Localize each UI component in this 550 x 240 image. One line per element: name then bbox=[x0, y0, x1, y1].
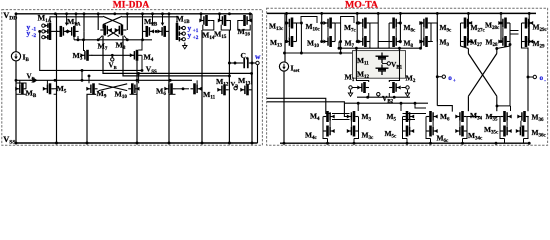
cross-coupling X top bbox=[103, 16, 122, 24]
input terminals of M1A bbox=[42, 24, 48, 39]
wire M13 gate loop bbox=[297, 17, 318, 24]
transistor M10c bbox=[323, 18, 335, 29]
wire M28 drain down bbox=[497, 42, 510, 49]
wire M29 drain down bbox=[522, 42, 529, 78]
transistor M2 bbox=[389, 82, 401, 93]
wire M9c gate link bbox=[423, 27, 425, 37]
wire M1B drain up bbox=[122, 17, 177, 23]
terminal VB2 bbox=[377, 93, 380, 96]
inner box M11 M12 bbox=[353, 51, 406, 79]
wire right col down bbox=[251, 14, 253, 143]
wire M28c gate link bbox=[502, 27, 504, 37]
transistor M13 bbox=[285, 36, 297, 47]
wire M2A src right bbox=[83, 14, 85, 32]
wire M8 src up bbox=[126, 14, 128, 30]
wire MB drain bbox=[16, 83, 26, 94]
wire M5 leads bbox=[54, 83, 57, 98]
wire M9c drain chain bbox=[430, 23, 432, 42]
transistor M28c bbox=[498, 18, 510, 29]
wire M28c drain chain bbox=[509, 23, 511, 42]
transistor M5c bbox=[403, 126, 414, 137]
wire M29c drain chain bbox=[521, 23, 523, 42]
svg-text:+2: +2 bbox=[193, 35, 199, 41]
MO-TA block border bbox=[267, 8, 548, 145]
wire gate bus VB row bbox=[16, 79, 192, 81]
transistor M34c bbox=[455, 126, 466, 137]
transistor M13 bbox=[240, 84, 251, 95]
wire source bus y40 bbox=[74, 39, 152, 41]
wire VB1 stub bbox=[382, 63, 387, 65]
wire X left top bbox=[467, 49, 469, 54]
terminal VB of M3 M4 bbox=[111, 58, 114, 61]
transistor M28 bbox=[498, 36, 510, 47]
wire MB gate up bbox=[19, 80, 21, 84]
wire M15 loop bbox=[221, 21, 230, 31]
svg-text:-1: -1 bbox=[32, 27, 37, 33]
wire o- stub bbox=[528, 76, 533, 78]
wire M35 gate branch bbox=[497, 106, 511, 111]
wire long bus A bbox=[103, 36, 252, 73]
wire IB drop bbox=[15, 14, 17, 52]
wire M27c gate link bbox=[467, 27, 469, 37]
svg-text:y: y bbox=[27, 28, 31, 37]
transistor M4c bbox=[323, 126, 334, 137]
wire M2A gate join bbox=[66, 30, 69, 33]
transistor M9 bbox=[419, 36, 431, 47]
transistor M3c bbox=[347, 126, 358, 137]
vss arrow below M1 input bbox=[348, 90, 352, 96]
transistor M11 bbox=[190, 83, 201, 94]
transistor M12 bbox=[217, 84, 228, 95]
VB arrows bbox=[30, 78, 37, 82]
transistor M16 bbox=[241, 15, 252, 26]
wire M1 drain up bbox=[356, 48, 368, 82]
wires M5-M6 links bbox=[403, 114, 427, 120]
output terminal o- bbox=[533, 75, 536, 78]
vss arrow below M2 input bbox=[405, 90, 409, 96]
wire M3 gate bus bbox=[92, 54, 134, 56]
wire M10 gate loop bbox=[335, 17, 354, 42]
wire M7 drain down bbox=[98, 36, 102, 40]
wire o+ stub bbox=[437, 76, 442, 78]
svg-text:o: o bbox=[448, 74, 452, 82]
wire M15 col down bbox=[228, 30, 230, 143]
wire M13c drain chain bbox=[296, 23, 298, 42]
wire M7 src up bbox=[97, 14, 99, 30]
transistor M36 bbox=[517, 111, 528, 122]
transistor M15 bbox=[218, 15, 229, 26]
transistor M9c bbox=[419, 18, 431, 29]
transistor M2A left bbox=[57, 26, 68, 37]
cross-coupling X of M7 M8 gates bbox=[108, 30, 119, 37]
wire M9 drain down bbox=[437, 13, 452, 111]
svg-text:+1: +1 bbox=[193, 28, 199, 34]
transistor M12 as MOS-cap bbox=[376, 65, 389, 76]
terminal VB1 bbox=[387, 62, 390, 65]
svg-text:w: w bbox=[255, 52, 261, 61]
wire M11 gate up bbox=[196, 80, 198, 84]
wire M27c source feed bbox=[467, 13, 469, 41]
wire M13c gate link bbox=[288, 27, 290, 37]
wire M28 drain straight bbox=[509, 44, 511, 106]
wire M8c source feed bbox=[399, 13, 401, 41]
transistor M1B multigate bars bbox=[177, 23, 179, 42]
transistor M3 bbox=[347, 111, 358, 122]
transistor M35c bbox=[500, 126, 511, 137]
wire IB down bbox=[15, 61, 17, 143]
current source IB bbox=[11, 52, 20, 61]
wire M2B col down bbox=[168, 31, 170, 143]
junction dots on VDD rail bbox=[15, 12, 18, 15]
wire M12 drain up bbox=[228, 76, 231, 90]
capacitor Cc plates bbox=[244, 58, 248, 68]
wire M2B drain drop right bbox=[162, 14, 164, 25]
wire Iset to bias box bbox=[285, 52, 353, 54]
wire M16 src drop bbox=[249, 14, 251, 21]
junction dots on VSS rail right bbox=[283, 142, 286, 145]
wires M34-M35 gate link bbox=[467, 116, 500, 118]
wire M6 drain bbox=[176, 88, 184, 90]
transistor M5 bbox=[43, 83, 54, 94]
transistor M2B right bbox=[158, 26, 169, 37]
wire M10 drain up bbox=[138, 73, 140, 83]
transistor M8c bbox=[389, 18, 401, 29]
wire input route 2 bbox=[267, 102, 348, 117]
wire drain bus bbox=[40, 31, 142, 70]
wire M15 src drop bbox=[219, 14, 221, 21]
transistor M8 bbox=[389, 36, 401, 47]
wire M8c gate link bbox=[395, 27, 397, 37]
junction dots on VDD rail right bbox=[285, 12, 288, 15]
wire M4 drain up bbox=[138, 40, 142, 50]
transistor M3 bbox=[80, 50, 92, 61]
transistor M4 bbox=[130, 50, 142, 61]
wire M7 drain down bbox=[369, 42, 371, 49]
wire M12 src bbox=[229, 95, 252, 143]
wire M16 loop bbox=[238, 21, 250, 31]
transistor M6 bbox=[426, 111, 437, 122]
wire M29c source feed bbox=[528, 13, 530, 41]
wire M2 drain up bbox=[389, 48, 399, 82]
cross-coupling X of M9 M10 bbox=[99, 84, 128, 91]
wire VDD top rail right bbox=[267, 12, 536, 14]
wire M2B left down bbox=[142, 31, 144, 39]
wire M13 drain up bbox=[251, 73, 253, 89]
wire M8c drain chain bbox=[388, 23, 390, 42]
vss arrow below M1B bbox=[183, 43, 187, 49]
wire M9 src bbox=[87, 94, 96, 143]
transistor M27c bbox=[461, 18, 473, 29]
wire M3 drain up bbox=[84, 40, 85, 51]
wire M6 gate up bbox=[168, 80, 170, 84]
transistor M2A right bbox=[67, 26, 78, 37]
input terminal M1 bbox=[349, 86, 352, 89]
svg-text:MI-DDA: MI-DDA bbox=[113, 0, 150, 10]
wire Iset col bbox=[284, 13, 285, 143]
wire M13c source feed bbox=[286, 13, 288, 41]
svg-text:y: y bbox=[188, 31, 192, 40]
wire diff tail bbox=[369, 93, 390, 97]
transistor M10 bbox=[128, 83, 139, 94]
cross-coupled output wires X bbox=[468, 54, 496, 97]
wire M10c source feed bbox=[321, 13, 323, 41]
cascode links rowA-rowB bbox=[323, 117, 528, 132]
wire M29c gate link bbox=[528, 27, 530, 37]
wire VSS rail right bbox=[280, 142, 529, 144]
wire rowA gate bus bbox=[345, 102, 428, 104]
svg-text:-2: -2 bbox=[32, 33, 37, 39]
wire M10c drain chain bbox=[334, 23, 336, 42]
transistor M34 bbox=[455, 111, 466, 122]
transistor M6c bbox=[426, 126, 437, 137]
transistor M13c bbox=[285, 18, 297, 29]
wire M11 drain up bbox=[183, 88, 189, 90]
wire M2A right col down bbox=[83, 31, 85, 39]
wire M5 col bbox=[56, 80, 58, 143]
transistor M6 bbox=[164, 83, 175, 94]
wire M7c source feed bbox=[356, 13, 358, 41]
wire tail bus bbox=[357, 96, 410, 98]
wire Cc left bbox=[229, 62, 243, 64]
transistor M27 bbox=[461, 36, 473, 47]
wire M2A src left bbox=[56, 14, 58, 32]
transistor M11 as MOS-cap bbox=[376, 53, 389, 64]
wire M14 loop bbox=[203, 21, 214, 31]
input terminal M2 bbox=[406, 86, 409, 89]
wire M7c gate link bbox=[362, 27, 364, 37]
wire link 82 bbox=[81, 70, 83, 80]
transistor M7c bbox=[358, 18, 370, 29]
wire M2A drain drop left bbox=[66, 14, 68, 25]
transistor M36c bbox=[516, 126, 527, 137]
wire M13 drain down bbox=[300, 23, 302, 53]
wires M4-M3 cross links bbox=[332, 114, 350, 120]
wire M28c source feed bbox=[500, 13, 502, 41]
wire M4 src stub bbox=[141, 55, 143, 69]
wire M2A drain drop right bbox=[75, 14, 77, 25]
wire M10 drain down bbox=[340, 42, 342, 54]
wire M4 col down bbox=[137, 55, 138, 143]
transistor M7 bbox=[100, 25, 112, 36]
wire o- col down bbox=[527, 77, 529, 111]
wire M11 col bbox=[199, 76, 202, 143]
transistor M35 bbox=[500, 111, 511, 122]
wire M27 drain down bbox=[461, 42, 469, 49]
wire M10 src bbox=[130, 93, 138, 95]
wire M6 src bbox=[169, 93, 176, 95]
wire M14 col down bbox=[201, 30, 203, 143]
transistor M14 bbox=[199, 15, 210, 26]
transistor M29 bbox=[522, 36, 534, 47]
wire M8 drain down bbox=[124, 36, 127, 40]
MI-DDA block border bbox=[2, 10, 263, 146]
transistor M2B left bbox=[143, 26, 154, 37]
wire X right down bbox=[496, 96, 498, 111]
wire M2B src left bbox=[142, 14, 144, 32]
wire M2B src right bbox=[168, 14, 170, 32]
wire bus y48 bbox=[339, 47, 421, 49]
wire M9 drain up bbox=[88, 76, 90, 83]
wire M10c gate link bbox=[327, 27, 329, 37]
wire M8 drain down bbox=[388, 42, 390, 49]
wire M78 link bbox=[377, 13, 379, 48]
wire VSS bottom rail bbox=[16, 142, 258, 144]
wire M5 gate up bbox=[46, 80, 48, 84]
current source Iset bbox=[279, 62, 288, 71]
wire gate links right cols bbox=[510, 31, 519, 35]
transistor M8 bbox=[115, 25, 127, 36]
wire M2A left col down bbox=[56, 31, 58, 80]
transistor M1 bbox=[357, 82, 369, 93]
wire X left down bbox=[467, 96, 469, 111]
junction dots on VSS rail bbox=[15, 142, 18, 145]
transistor M9 bbox=[86, 83, 97, 94]
transistor M29c bbox=[522, 18, 534, 29]
wire M2B drain drop left bbox=[152, 14, 154, 25]
wire M7c drain chain bbox=[369, 23, 371, 42]
transistor MB bbox=[15, 83, 26, 94]
wire VDD top rail bbox=[16, 13, 253, 15]
wire X right top bbox=[496, 49, 498, 54]
transistor M7 bbox=[358, 36, 370, 47]
transistor M5 bbox=[403, 111, 414, 122]
terminal w bbox=[256, 61, 259, 64]
wire M1A drain up bbox=[50, 17, 103, 23]
transistor M10 bbox=[323, 36, 335, 47]
terminal VB of M12 M13 bbox=[234, 87, 237, 90]
transistor M4 bbox=[323, 111, 334, 122]
transistor M1A multigate bars bbox=[48, 23, 58, 40]
wire long bus B bbox=[123, 36, 229, 76]
svg-text:o: o bbox=[540, 74, 544, 82]
output terminal o+ bbox=[442, 75, 445, 78]
svg-text:MO-TA: MO-TA bbox=[345, 0, 378, 11]
wire M27c drain chain bbox=[460, 23, 462, 42]
wire M14 src drop bbox=[200, 14, 202, 21]
wire input route 1 bbox=[267, 98, 331, 113]
row B sources to rail bbox=[323, 131, 528, 143]
svg-text:+: + bbox=[453, 79, 456, 84]
wire Cc right bbox=[249, 62, 256, 64]
wire M9c source feed bbox=[420, 23, 422, 48]
input terminals of M1B bbox=[180, 26, 186, 40]
wire w node down bbox=[257, 65, 259, 143]
